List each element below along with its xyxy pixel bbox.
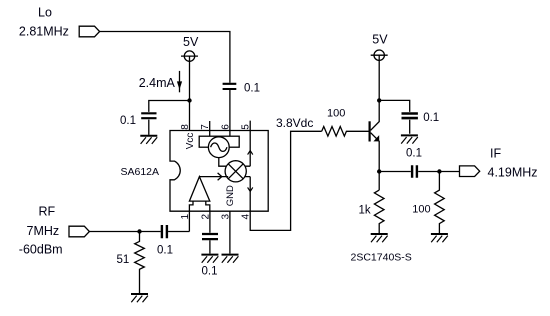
svg-text:7MHz: 7MHz (27, 224, 60, 238)
svg-text:100: 100 (327, 108, 345, 120)
svg-text:SA612A: SA612A (121, 166, 160, 178)
svg-text:5: 5 (240, 124, 251, 130)
svg-text:1k: 1k (359, 204, 371, 216)
svg-text:2: 2 (200, 214, 211, 220)
svg-text:51: 51 (117, 254, 130, 266)
svg-text:0.1: 0.1 (202, 265, 218, 277)
svg-text:0.1: 0.1 (423, 112, 439, 124)
svg-text:3.8Vdc: 3.8Vdc (276, 116, 313, 130)
svg-text:100: 100 (412, 204, 430, 216)
svg-text:4: 4 (241, 214, 252, 220)
svg-text:GND: GND (225, 185, 236, 206)
svg-text:4.19MHz: 4.19MHz (488, 166, 538, 180)
svg-text:7: 7 (200, 124, 211, 130)
svg-text:2.81MHz: 2.81MHz (19, 25, 69, 39)
svg-text:Vcc: Vcc (185, 133, 196, 150)
svg-text:1: 1 (180, 214, 191, 220)
svg-text:2.4mA: 2.4mA (139, 76, 176, 90)
svg-text:3: 3 (220, 214, 231, 220)
svg-text:0.1: 0.1 (120, 115, 136, 127)
svg-text:-60dBm: -60dBm (19, 243, 63, 257)
svg-text:6: 6 (220, 124, 231, 130)
svg-text:5V: 5V (372, 32, 388, 46)
svg-text:0.1: 0.1 (157, 245, 173, 257)
svg-text:IF: IF (490, 147, 501, 161)
svg-text:5V: 5V (183, 35, 199, 49)
svg-text:8: 8 (180, 124, 191, 130)
svg-text:Lo: Lo (38, 6, 52, 20)
svg-text:0.1: 0.1 (406, 148, 422, 160)
svg-text:0.1: 0.1 (244, 82, 260, 94)
svg-text:RF: RF (39, 204, 56, 218)
svg-text:2SC1740S-S: 2SC1740S-S (351, 251, 412, 263)
